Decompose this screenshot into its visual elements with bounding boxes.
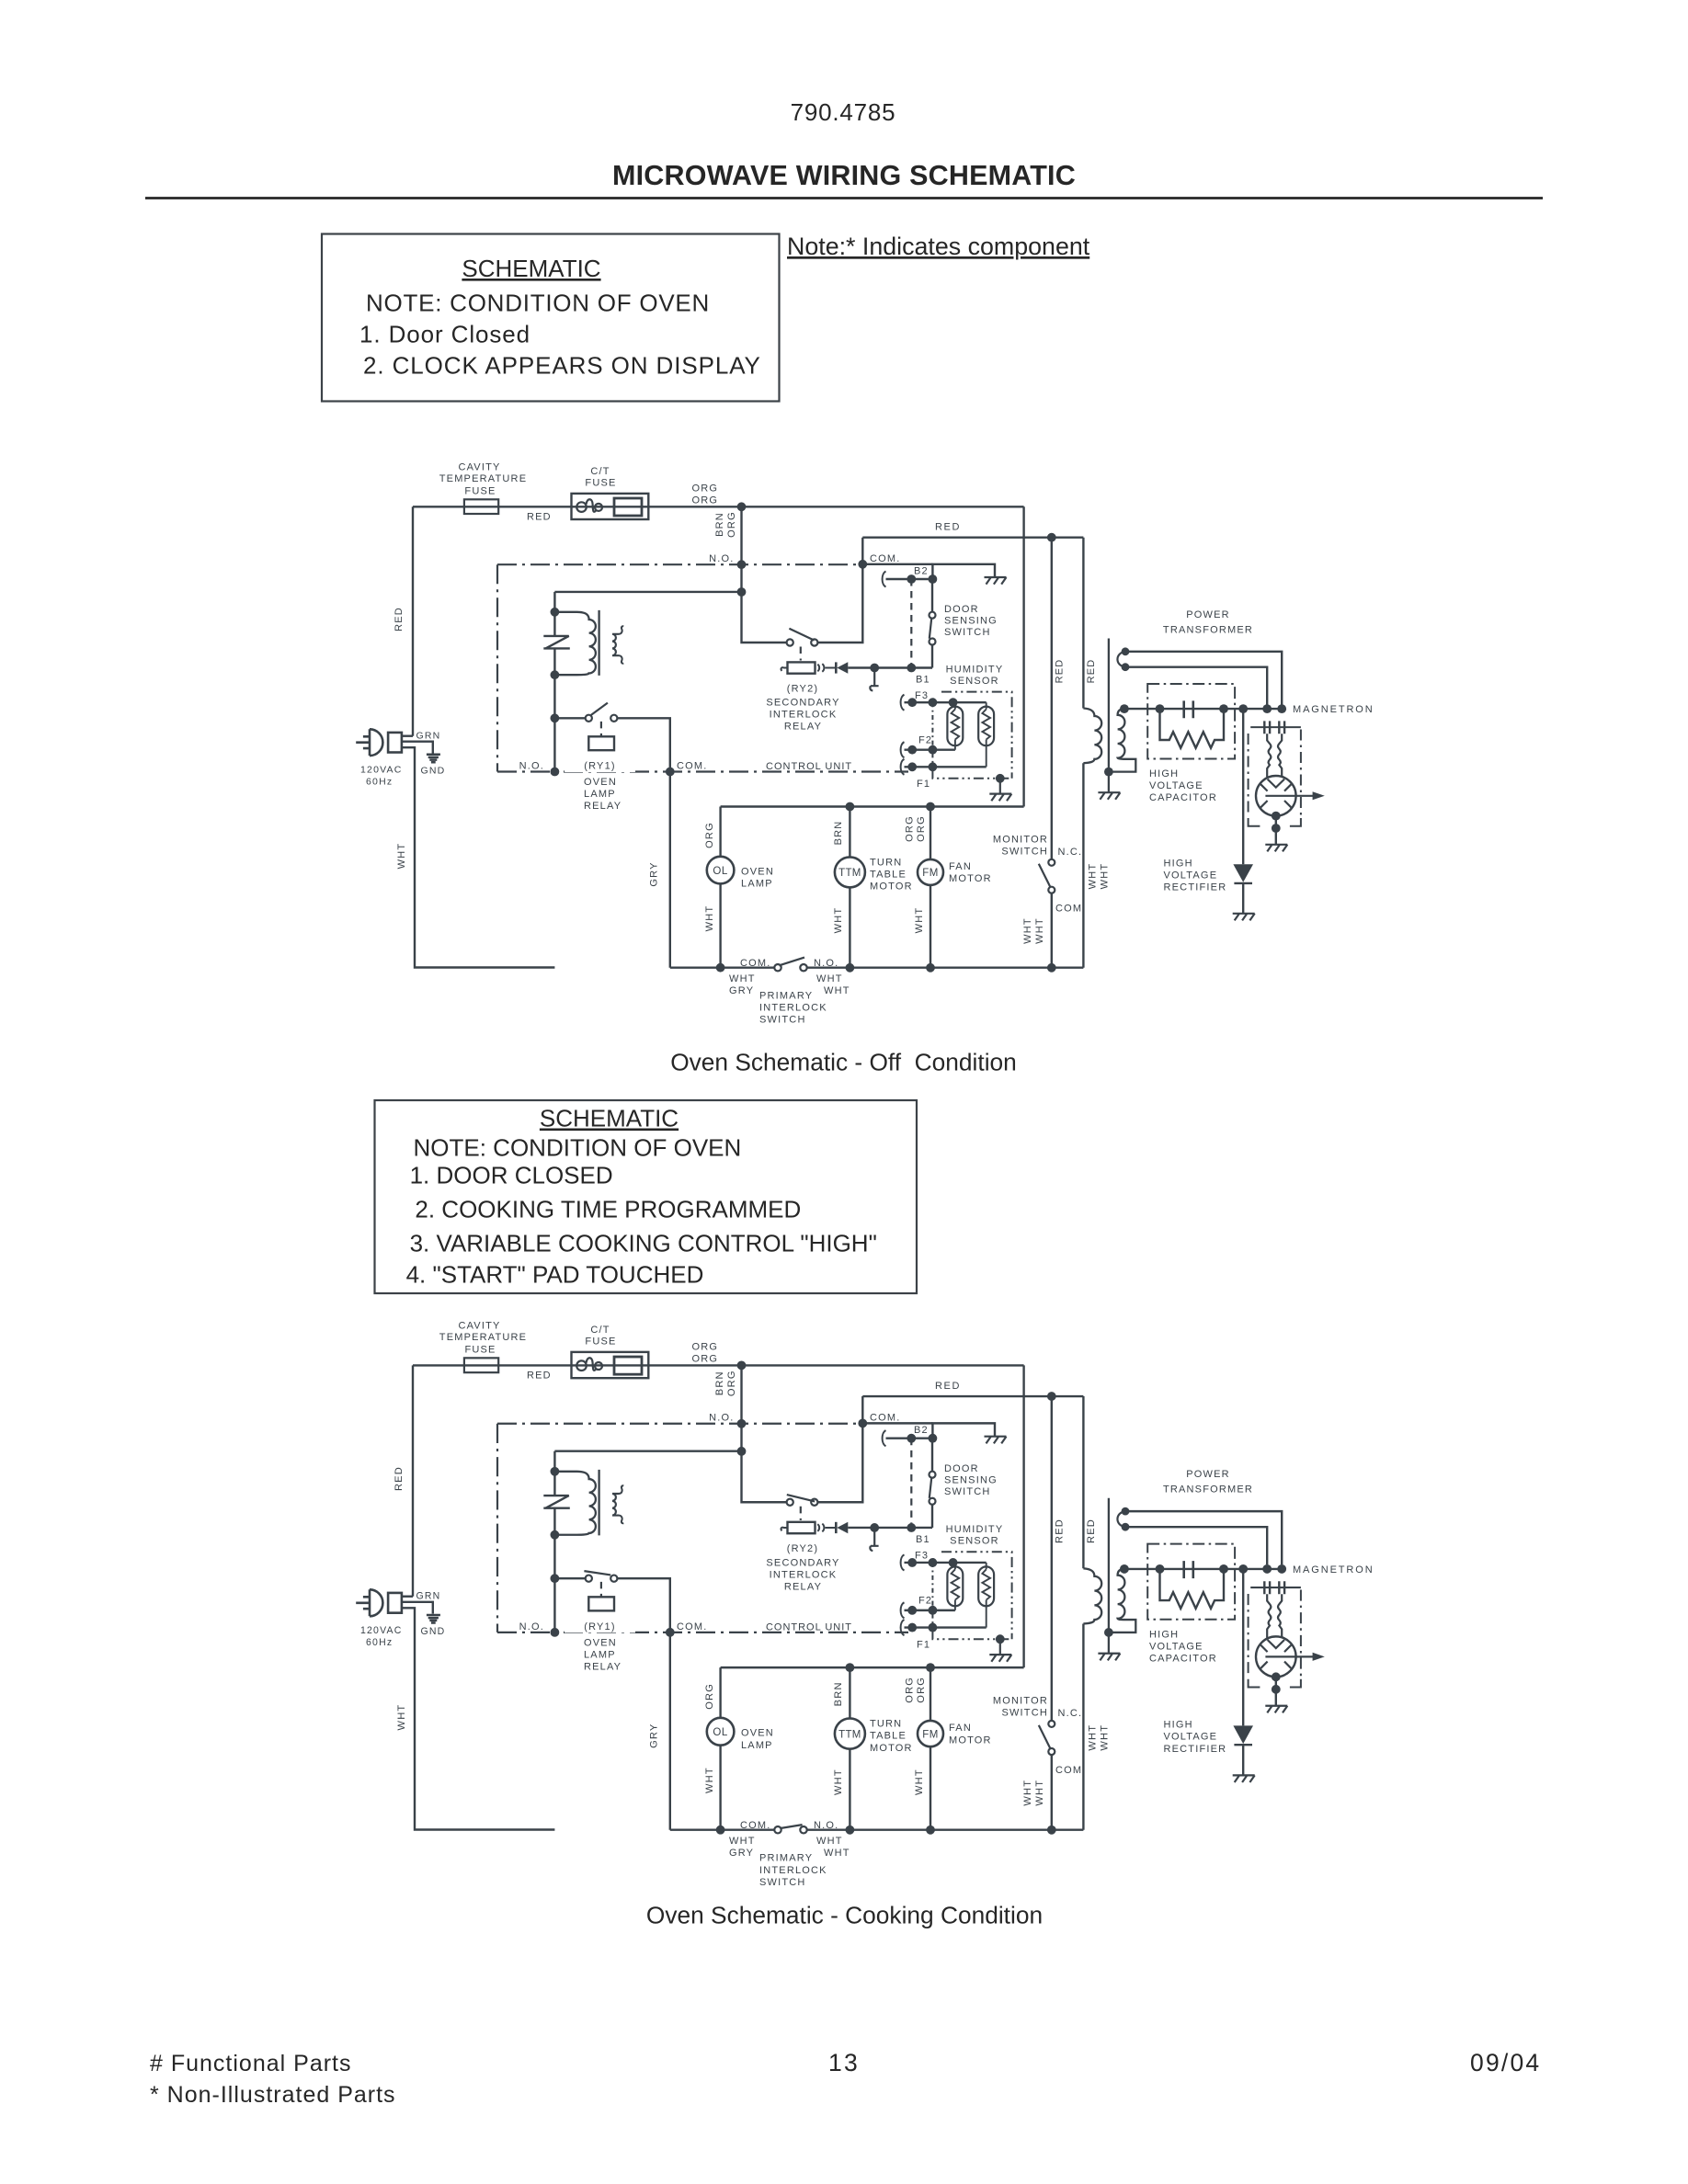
svg-text:B1: B1 — [916, 675, 930, 686]
interlock contact COM (off) — [774, 964, 781, 971]
svg-text:WHT: WHT — [816, 1836, 843, 1847]
svg-text:2. COOKING TIME PROGRAMMED: 2. COOKING TIME PROGRAMMED — [415, 1196, 801, 1223]
wire FM drop (off) — [930, 807, 931, 859]
pt primary coil (cooking) — [1083, 1568, 1101, 1623]
svg-text:WHT: WHT — [1100, 863, 1111, 890]
svg-text:SENSING: SENSING — [944, 1475, 998, 1486]
wire RY1 to COM (cooking) — [617, 1578, 669, 1632]
svg-text:RED: RED — [1086, 1519, 1097, 1543]
wire F2 row (off) — [905, 749, 955, 751]
svg-text:SCHEMATIC: SCHEMATIC — [462, 255, 600, 282]
svg-text:MONITOR: MONITOR — [993, 835, 1048, 846]
svg-text:HIGH: HIGH — [1164, 1720, 1193, 1731]
svg-text:MONITOR: MONITOR — [993, 1695, 1048, 1706]
pt secondary coil (off) — [1110, 709, 1136, 772]
svg-text:B2: B2 — [914, 566, 929, 577]
xfmr core (cooking) — [598, 1470, 599, 1536]
wire ORG drop (cooking) — [740, 1365, 742, 1450]
wire TTM down (cooking) — [849, 1749, 850, 1830]
monitor contact NC (cooking) — [1048, 1721, 1055, 1727]
wire bus right (cooking) — [807, 1828, 1084, 1830]
wire xfmr left lower (cooking) — [553, 1508, 555, 1535]
mag box left (cooking) — [1248, 1594, 1249, 1678]
node B2 pin (cooking) — [907, 1434, 916, 1443]
svg-text:LAMP: LAMP — [741, 879, 773, 890]
svg-text:N.O.: N.O. — [519, 761, 544, 772]
plug body 120VAC (off) — [356, 729, 382, 756]
fan motor FM (cooking) — [918, 1721, 943, 1746]
svg-text:F3: F3 — [915, 1551, 929, 1562]
svg-text:GRN: GRN — [416, 731, 441, 742]
mag cathode (off) — [1268, 779, 1284, 788]
wire monitor upper (off) — [1051, 538, 1053, 859]
wire ORG drop (off) — [740, 506, 742, 592]
node COM top pin (cooking) — [858, 1418, 867, 1428]
wire RY2 row (off) — [742, 592, 787, 643]
svg-text:COM.: COM. — [870, 1413, 900, 1424]
node F1 a (off) — [907, 762, 917, 771]
svg-text:N.O.: N.O. — [709, 553, 734, 564]
svg-text:TTM: TTM — [838, 868, 861, 879]
node RED tee (cooking) — [1047, 1392, 1056, 1401]
node FM top (cooking) — [926, 1663, 935, 1672]
RY1 contact left (cooking) — [586, 1575, 592, 1582]
svg-text:WHT: WHT — [824, 1848, 850, 1859]
diode D1 (off) — [837, 662, 848, 673]
svg-text:CAVITY: CAVITY — [458, 462, 500, 473]
sensor stub terminal (off) — [870, 668, 878, 691]
svg-text:RELAY: RELAY — [584, 801, 622, 812]
RY2 contact left (cooking) — [787, 1499, 793, 1506]
svg-text:(RY2): (RY2) — [787, 684, 819, 695]
svg-text:RED: RED — [1055, 659, 1066, 684]
C/T fuse element (cooking) — [576, 1358, 602, 1371]
diode bar (cooking) — [835, 1522, 838, 1533]
diode D1 (cooking) — [837, 1522, 848, 1533]
wire COM pin to door switch (cooking) — [862, 1422, 932, 1424]
control unit box top (cooking) — [497, 1423, 862, 1425]
node F2 a (cooking) — [907, 1606, 917, 1615]
svg-text:WHT: WHT — [824, 985, 850, 996]
wire rectifier drop (off) — [1242, 709, 1244, 864]
mag antenna arrowhead (cooking) — [1313, 1653, 1325, 1661]
wire GRN to ground (cooking) — [402, 1602, 433, 1614]
pt center lead (cooking) — [1108, 1498, 1110, 1654]
wire F3 row (off) — [905, 701, 987, 703]
RY2 lever (off) — [789, 629, 814, 641]
wire bus left (off) — [670, 966, 775, 968]
RY2 lever (cooking) — [787, 1495, 815, 1501]
wire RY1 left (off) — [554, 717, 585, 719]
wire B2 row (cooking) — [886, 1438, 933, 1439]
C/T fuse element (off) — [576, 499, 602, 512]
wire x1113 riser (cooking) — [1022, 1365, 1024, 1667]
wire OL down (cooking) — [719, 1746, 721, 1830]
svg-text:4. "START" PAD TOUCHED: 4. "START" PAD TOUCHED — [406, 1261, 704, 1289]
diode bar (off) — [835, 662, 838, 673]
wire relay feed drop (off) — [553, 592, 555, 612]
node sensor stub (off) — [870, 664, 879, 673]
svg-text:LAMP: LAMP — [584, 789, 616, 800]
wire rectifier gnd (off) — [1242, 883, 1244, 914]
node filament b (cooking) — [1122, 1523, 1130, 1531]
wire filament bottom (off) — [1125, 667, 1267, 705]
xfmr primary coil (off) — [554, 612, 596, 675]
node filament b (off) — [1122, 663, 1130, 671]
wire xfmr RED drop (off) — [1082, 538, 1084, 709]
chassis ground mag (cooking) — [1265, 1706, 1287, 1713]
svg-text:SENSING: SENSING — [944, 616, 998, 627]
wire COM pin to door switch (off) — [862, 563, 932, 565]
svg-text:GRY: GRY — [729, 1848, 754, 1859]
turntable motor TTM (off) — [835, 857, 865, 887]
svg-text:FAN: FAN — [949, 1723, 972, 1734]
node F1 ground (off) — [996, 774, 1005, 783]
svg-text:WHT: WHT — [729, 1836, 756, 1847]
RY1 contact left (off) — [586, 715, 592, 722]
svg-text:OVEN: OVEN — [741, 1728, 774, 1739]
node F2 b (off) — [929, 745, 938, 755]
svg-text:MOTOR: MOTOR — [870, 1743, 913, 1754]
xfmr secondary hook bottom (cooking) — [620, 1516, 624, 1524]
svg-text:ORG: ORG — [704, 1683, 715, 1710]
svg-text:# Functional Parts: # Functional Parts — [150, 2051, 352, 2076]
svg-text:ORG: ORG — [692, 1354, 719, 1365]
wire TTM down (off) — [849, 887, 850, 967]
wire diode to B1 (cooking) — [848, 1527, 932, 1529]
wire RY1 to COM (off) — [617, 718, 669, 771]
svg-text:RED: RED — [393, 1466, 405, 1491]
HV capacitor box (off) — [1147, 684, 1235, 759]
svg-text:TURN: TURN — [870, 1719, 902, 1730]
svg-text:VOLTAGE: VOLTAGE — [1149, 780, 1203, 791]
node F1 b (cooking) — [929, 1623, 938, 1632]
svg-text:RELAY: RELAY — [584, 1662, 622, 1673]
pt filament winding (cooking) — [1117, 1511, 1125, 1527]
wire RY2 to RED riser (cooking) — [818, 1396, 863, 1502]
svg-text:TURN: TURN — [870, 858, 902, 869]
node COM bottom pin (off) — [666, 768, 675, 777]
svg-text:OL: OL — [713, 1727, 727, 1738]
svg-text:WHT: WHT — [1022, 917, 1033, 944]
svg-text:WHT: WHT — [816, 973, 843, 984]
svg-text:RED: RED — [527, 512, 552, 523]
mag feedthrough caps (off) — [1264, 721, 1284, 734]
svg-text:ORG: ORG — [726, 1370, 737, 1396]
node RY2 branch (off) — [737, 587, 747, 597]
door switch link (cooking) — [910, 1439, 912, 1528]
xfmr primary coil (cooking) — [554, 1472, 596, 1535]
xfmr secondary hook bottom (off) — [620, 655, 624, 664]
svg-text:13: 13 — [828, 2049, 860, 2076]
node HV cap right (cooking) — [1219, 1564, 1228, 1574]
capacitor plates (cooking) — [1184, 1561, 1193, 1578]
svg-text:MOTOR: MOTOR — [949, 873, 992, 884]
svg-text:120VAC: 120VAC — [360, 765, 403, 776]
interlock contact NO (off) — [800, 964, 806, 971]
humidity box (cooking) — [932, 1552, 1011, 1639]
mag filament lead right (off) — [1278, 734, 1282, 777]
mag filament lead left (cooking) — [1267, 1594, 1271, 1637]
mag box corner bl (off) — [1249, 818, 1260, 826]
node B2 pin (off) — [907, 574, 916, 584]
node B2 switch (off) — [929, 574, 938, 584]
wire rectifier gnd (cooking) — [1242, 1745, 1244, 1775]
node TTM top (off) — [846, 802, 855, 812]
RY2 coil terminal right (off) — [817, 664, 835, 672]
svg-text:BRN: BRN — [714, 1371, 725, 1395]
svg-text:WHT: WHT — [1034, 917, 1045, 944]
svg-text:N.O.: N.O. — [814, 1820, 838, 1831]
bleed resistor (cooking) — [1160, 1569, 1225, 1609]
svg-text:FM: FM — [922, 1729, 939, 1740]
node HV fil2 (off) — [1277, 704, 1286, 713]
svg-text:INTERLOCK: INTERLOCK — [770, 1569, 838, 1580]
wire B2 to contact (off) — [931, 579, 933, 612]
mag filament lead right (cooking) — [1278, 1594, 1282, 1637]
node F3 b (off) — [929, 698, 938, 707]
svg-text:TRANSFORMER: TRANSFORMER — [1163, 1484, 1253, 1496]
svg-text:MAGNETRON: MAGNETRON — [1293, 1564, 1374, 1575]
RY1 coil (cooking) — [588, 1597, 614, 1610]
node monitor bus (off) — [1047, 963, 1056, 973]
node N.O. pin (off) — [737, 560, 747, 569]
label gap (RY1) (off) — [565, 760, 635, 773]
svg-text:HUMIDITY: HUMIDITY — [946, 665, 1004, 676]
svg-text:RED: RED — [935, 522, 961, 533]
humidity box (off) — [932, 692, 1011, 779]
svg-text:OL: OL — [713, 866, 727, 877]
node COM top pin (off) — [858, 560, 867, 569]
node TTM bus (off) — [846, 963, 855, 973]
wire RY1 left (cooking) — [554, 1577, 585, 1579]
RY2 link (off) — [800, 647, 802, 661]
node OL bus (cooking) — [716, 1826, 725, 1835]
svg-text:SWITCH: SWITCH — [1001, 1708, 1048, 1719]
node HV cap left (cooking) — [1156, 1564, 1165, 1574]
terminal B2 (off) — [883, 572, 886, 587]
wire plug hot (cooking) — [402, 1596, 413, 1598]
humidity link (cooking) — [931, 1563, 933, 1628]
node xfmr top (off) — [551, 608, 560, 617]
svg-text:ORG: ORG — [916, 815, 927, 842]
mag box corner bl (cooking) — [1249, 1679, 1260, 1688]
oven lamp OL (cooking) — [707, 1718, 735, 1746]
svg-text:WHT: WHT — [1088, 1724, 1099, 1751]
node B2 switch (cooking) — [929, 1434, 938, 1443]
svg-text:LAMP: LAMP — [741, 1740, 773, 1751]
svg-text:WHT: WHT — [704, 905, 715, 932]
RY2 contact right (off) — [811, 639, 817, 645]
svg-text:F1: F1 — [917, 779, 930, 790]
xfmr secondary coil (cooking) — [612, 1494, 620, 1516]
svg-text:(RY1): (RY1) — [584, 761, 616, 772]
svg-text:PRIMARY: PRIMARY — [759, 1853, 813, 1864]
node OL bus (off) — [716, 963, 725, 973]
svg-text:DOOR: DOOR — [944, 604, 979, 615]
chassis ground rect (cooking) — [1233, 1775, 1255, 1782]
note box 2 — [375, 1100, 918, 1293]
wire mag gnd (cooking) — [1275, 1677, 1277, 1705]
svg-text:RECTIFIER: RECTIFIER — [1164, 1744, 1227, 1755]
RY1 link (cooking) — [600, 1582, 602, 1597]
svg-text:RECTIFIER: RECTIFIER — [1164, 882, 1227, 893]
terminal F3 (cooking) — [901, 1554, 905, 1570]
xfmr secondary hook top (cooking) — [620, 1485, 624, 1494]
svg-text:WHT: WHT — [1100, 1724, 1111, 1751]
svg-text:C/T: C/T — [590, 466, 610, 477]
node HV rect (off) — [1238, 704, 1248, 713]
svg-text:HUMIDITY: HUMIDITY — [946, 1524, 1004, 1535]
wire rectifier drop (cooking) — [1242, 1569, 1244, 1726]
pt filament winding (off) — [1117, 652, 1125, 667]
wire OL drop (cooking) — [719, 1667, 721, 1718]
magnetron tube V1 (cooking) — [1256, 1636, 1296, 1677]
svg-text:WHT: WHT — [1034, 1780, 1045, 1806]
wire OL down (off) — [719, 883, 721, 967]
terminal B2 (cooking) — [883, 1430, 886, 1446]
thermistor RH2 (cooking) — [978, 1563, 994, 1628]
wire B2 to ground (off) — [932, 564, 995, 579]
label gap (RY1) (cooking) — [565, 1621, 635, 1633]
mag box left (off) — [1248, 734, 1249, 816]
svg-text:GND: GND — [421, 766, 446, 777]
pt secondary coil (cooking) — [1110, 1569, 1136, 1632]
node xfmr bottom (off) — [551, 670, 560, 679]
node TTM top (cooking) — [846, 1663, 855, 1672]
svg-text:SWITCH: SWITCH — [759, 1015, 806, 1026]
node F2 a (off) — [907, 745, 917, 755]
wire relay feed (cooking) — [554, 1450, 741, 1452]
earth ground GND (cooking) — [427, 1615, 440, 1622]
door switch contact top (off) — [930, 612, 936, 619]
svg-text:WHT: WHT — [833, 907, 844, 934]
node F3 a (cooking) — [907, 1558, 917, 1567]
magnetron tube V1 (off) — [1256, 776, 1296, 816]
svg-text:COM.: COM. — [677, 761, 708, 772]
svg-text:ORG: ORG — [905, 815, 916, 842]
node ORG junction (off) — [737, 502, 747, 511]
wire RED bus (off) — [862, 537, 1083, 539]
node HV cap right (off) — [1219, 704, 1228, 713]
wire plug neutral WHT (off) — [402, 747, 555, 967]
wire filament top (off) — [1125, 652, 1282, 705]
wire bus left (cooking) — [670, 1828, 775, 1830]
wire F1 ground stub (cooking) — [999, 1639, 1001, 1655]
chassis ground mag (off) — [1265, 845, 1287, 852]
terminal F2 (off) — [901, 742, 905, 757]
node pt return (cooking) — [1104, 1628, 1113, 1637]
wire RY2 to RED riser (off) — [818, 538, 863, 643]
wire monitor lower (cooking) — [1051, 1755, 1053, 1830]
node xfmr top (cooking) — [551, 1467, 560, 1476]
chassis ground B2 (cooking) — [985, 1437, 1007, 1444]
mag antenna (cooking) — [1265, 1655, 1313, 1657]
node F1 b (off) — [929, 762, 938, 771]
svg-text:WHT: WHT — [914, 1769, 925, 1795]
wire plug neutral WHT (cooking) — [402, 1608, 555, 1829]
wire xfmr to RY1 (cooking) — [553, 1535, 555, 1632]
HV rectifier D2 (cooking) — [1233, 1725, 1253, 1744]
svg-text:NOTE: CONDITION OF OVEN: NOTE: CONDITION OF OVEN — [414, 1134, 742, 1162]
chassis ground pt (cooking) — [1098, 1654, 1120, 1661]
svg-text:1. Door Closed: 1. Door Closed — [359, 321, 530, 348]
monitor lever (cooking) — [1039, 1725, 1051, 1749]
thermistor RH1 (cooking) — [947, 1563, 963, 1610]
terminal F1 (off) — [901, 759, 905, 775]
wire F2 row (cooking) — [905, 1610, 955, 1611]
mag cathode (cooking) — [1268, 1640, 1284, 1648]
node mag cathode a (cooking) — [1272, 1672, 1281, 1681]
wire GRY (cooking) — [669, 1632, 671, 1830]
RY1 coil (off) — [588, 736, 614, 750]
wire TTM drop (cooking) — [849, 1667, 850, 1718]
svg-text:N.C.: N.C. — [1058, 847, 1083, 858]
mag vanes (cooking) — [1260, 1645, 1291, 1668]
svg-text:FUSE: FUSE — [464, 486, 496, 497]
wire WHT drop (off) — [1082, 763, 1084, 967]
node mag cathode a (off) — [1272, 812, 1281, 821]
svg-text:FUSE: FUSE — [585, 478, 616, 489]
svg-text:COM.: COM. — [677, 1621, 707, 1632]
svg-text:60Hz: 60Hz — [366, 1637, 393, 1648]
node RY1 common (cooking) — [551, 1574, 560, 1583]
door switch contact top (cooking) — [930, 1472, 936, 1478]
svg-text:FUSE: FUSE — [585, 1336, 616, 1347]
C/T fuse cartridge (cooking) — [614, 1357, 642, 1374]
node RED tee (off) — [1047, 533, 1056, 542]
svg-text:GRY: GRY — [649, 861, 660, 886]
svg-text:RED: RED — [393, 607, 405, 631]
svg-text:(RY1): (RY1) — [584, 1621, 616, 1632]
svg-text:CONTROL UNIT: CONTROL UNIT — [766, 761, 852, 772]
svg-text:VOLTAGE: VOLTAGE — [1164, 870, 1218, 882]
svg-text:WHT: WHT — [704, 1767, 715, 1793]
thermal cutout symbol (off) — [543, 636, 570, 649]
node HV fil1 (cooking) — [1262, 1564, 1272, 1574]
chassis ground F1 (cooking) — [989, 1655, 1011, 1662]
svg-text:SWITCH: SWITCH — [759, 1877, 806, 1888]
svg-text:MOTOR: MOTOR — [949, 1735, 992, 1746]
svg-text:GRY: GRY — [649, 1723, 660, 1747]
svg-text:ORG: ORG — [704, 822, 715, 848]
control unit box left (off) — [496, 564, 498, 771]
svg-text:RED: RED — [935, 1381, 961, 1392]
node HV fil2 (cooking) — [1277, 1564, 1286, 1574]
wire monitor upper (cooking) — [1051, 1396, 1053, 1721]
node FM bus (off) — [926, 963, 935, 973]
chassis ground F1 (off) — [989, 794, 1011, 802]
title rule — [145, 197, 1543, 199]
node F2 b (cooking) — [929, 1606, 938, 1615]
svg-text:COM.: COM. — [1055, 1765, 1086, 1776]
svg-text:1. DOOR CLOSED: 1. DOOR CLOSED — [410, 1162, 613, 1189]
node HV cap left (off) — [1156, 704, 1165, 713]
svg-text:MOTOR: MOTOR — [870, 882, 913, 893]
RY2 contact left (off) — [787, 639, 793, 645]
wire F1 row (off) — [905, 766, 987, 768]
mag box top (off) — [1250, 726, 1301, 728]
wire xfmr left lower (off) — [553, 648, 555, 675]
svg-text:F2: F2 — [918, 1596, 932, 1607]
svg-text:POWER: POWER — [1186, 609, 1230, 620]
wire TTM drop (off) — [849, 807, 850, 858]
svg-text:RELAY: RELAY — [784, 722, 822, 733]
svg-text:COM.: COM. — [740, 958, 771, 969]
svg-text:COM.: COM. — [740, 1820, 770, 1831]
node mag cathode b (off) — [1272, 824, 1281, 833]
svg-text:RELAY: RELAY — [784, 1581, 822, 1592]
